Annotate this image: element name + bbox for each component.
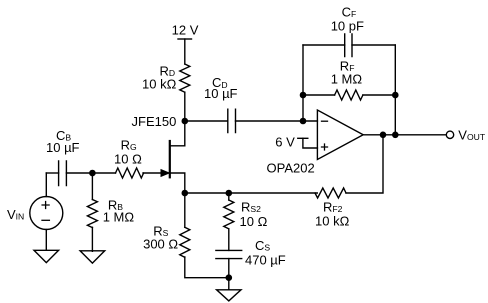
- svg-text:RF2: RF2: [323, 199, 343, 214]
- wire CD to inverting node: [236, 120, 304, 122]
- node feedback output junction dot: [392, 132, 399, 139]
- wire VIN bottom to ground: [45, 230, 47, 250]
- op-amp minus sign: [322, 120, 328, 122]
- wire source node to RS: [184, 193, 186, 227]
- svg-text:VIN: VIN: [7, 207, 24, 222]
- wire CB to node A: [66, 172, 92, 174]
- capacitor CB: [59, 161, 67, 186]
- svg-text:10 kΩ: 10 kΩ: [315, 214, 350, 229]
- svg-text:10 kΩ: 10 kΩ: [142, 77, 177, 92]
- resistor RG: [116, 168, 144, 178]
- wire CS to bottom node: [228, 259, 230, 278]
- terminal VOUT: [446, 131, 453, 138]
- op-amp U1 OPA202: [317, 110, 363, 160]
- supply 6V bar: [298, 137, 308, 139]
- node output junction dot: [380, 132, 387, 139]
- svg-text:CF: CF: [342, 5, 357, 20]
- transistor Q1 JFE150 channel bar: [169, 141, 171, 177]
- resistor RS2: [224, 200, 234, 229]
- svg-text:1 MΩ: 1 MΩ: [103, 210, 135, 225]
- wire bottom node to ground: [228, 278, 230, 290]
- svg-text:CS: CS: [255, 238, 270, 253]
- svg-text:300 Ω: 300 Ω: [143, 237, 178, 252]
- node source junction dot: [182, 190, 189, 197]
- gate arrow: [161, 170, 169, 177]
- VIN plus sign: [42, 202, 49, 209]
- svg-text:JFE150: JFE150: [132, 114, 177, 129]
- wire RS2 top: [228, 193, 230, 200]
- svg-text:6 V: 6 V: [275, 135, 295, 150]
- wire drain node to CD: [185, 120, 228, 122]
- resistor RF2: [315, 188, 346, 198]
- node RS2 top junction dot: [226, 190, 233, 197]
- wire output down to RF2: [346, 135, 383, 193]
- wire 6V to plus input: [303, 138, 318, 148]
- wire CF top loop right: [352, 44, 395, 46]
- svg-text:VOUT: VOUT: [458, 128, 486, 143]
- node drain junction dot: [182, 118, 189, 125]
- resistor RD: [180, 64, 190, 92]
- wire 12V to RD: [184, 39, 186, 64]
- svg-text:12 V: 12 V: [172, 23, 199, 38]
- resistor RS: [180, 227, 190, 257]
- node RF left junction dot: [300, 92, 307, 99]
- wire VIN top to input rail: [45, 173, 47, 197]
- wire RF right: [363, 94, 395, 96]
- wire RS2 to CS: [228, 229, 230, 250]
- wire RF left: [303, 94, 335, 96]
- wire RS to bottom rail: [185, 257, 229, 278]
- JFE150 source lead: [170, 173, 185, 193]
- wire feedback left column: [302, 45, 304, 121]
- svg-text:1 MΩ: 1 MΩ: [331, 71, 363, 86]
- svg-text:10 µF: 10 µF: [204, 86, 238, 101]
- svg-text:RG: RG: [121, 138, 137, 153]
- wire RB to ground: [91, 227, 93, 251]
- wire CF top loop left: [303, 44, 345, 46]
- node bottom junction dot: [226, 274, 233, 281]
- svg-text:470 µF: 470 µF: [245, 253, 286, 268]
- wire node A down to RB: [91, 173, 93, 200]
- wire inverting node to op-amp: [303, 120, 317, 122]
- supply 12V bar: [178, 38, 192, 40]
- op-amp plus sign: [322, 144, 328, 150]
- wire RD to drain node: [184, 92, 186, 121]
- ground under VIN: [34, 250, 59, 262]
- wire input rail to CB: [46, 172, 58, 174]
- svg-text:10 Ω: 10 Ω: [240, 214, 268, 229]
- wire op-amp output: [363, 134, 446, 136]
- JFE150 drain lead: [170, 121, 185, 146]
- svg-text:OPA202: OPA202: [267, 160, 315, 175]
- wire RG to gate: [143, 172, 168, 174]
- wire node A to RG: [92, 172, 115, 174]
- VIN minus sign: [42, 219, 49, 221]
- resistor RF: [335, 90, 363, 100]
- svg-text:10 pF: 10 pF: [331, 18, 364, 33]
- svg-text:10 Ω: 10 Ω: [114, 151, 142, 166]
- wire feedback right column: [394, 45, 396, 135]
- source VIN: [30, 197, 63, 230]
- svg-text:10 µF: 10 µF: [46, 140, 80, 155]
- node A junction dot: [89, 170, 96, 177]
- inverting node junction dot: [300, 118, 307, 125]
- capacitor CS: [216, 250, 242, 258]
- ground under RB: [80, 251, 105, 263]
- node RF right junction dot: [392, 92, 399, 99]
- capacitor CD: [228, 109, 236, 132]
- resistor RB: [87, 200, 97, 228]
- ground under CS: [217, 290, 241, 301]
- svg-text:RS2: RS2: [241, 200, 261, 215]
- capacitor CF: [345, 34, 352, 57]
- wire RF2 to source rail: [185, 192, 317, 194]
